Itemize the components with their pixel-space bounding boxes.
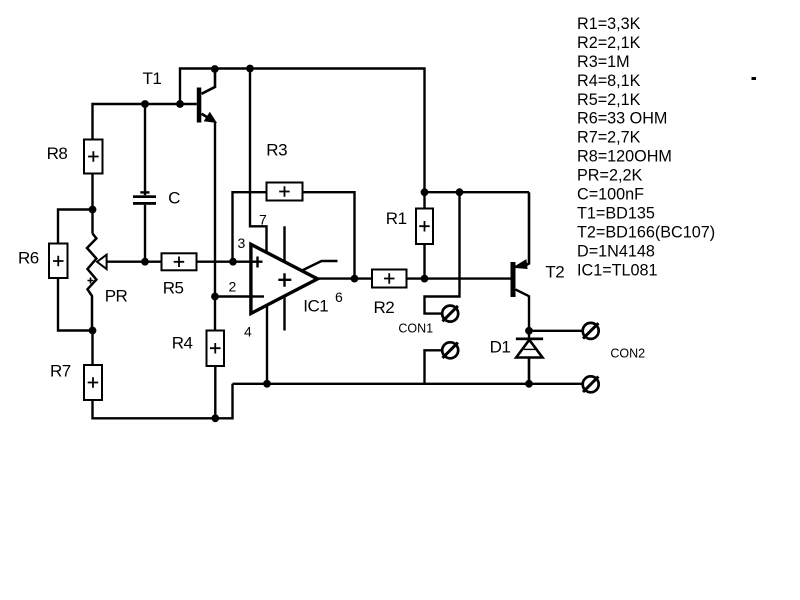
svg-text:CON2: CON2 [610, 347, 645, 361]
svg-text:R7: R7 [50, 362, 71, 381]
svg-text:IC1: IC1 [303, 297, 328, 316]
svg-text:R3: R3 [266, 140, 287, 159]
svg-text:R5: R5 [163, 279, 184, 298]
svg-text:R6=33 OHM: R6=33 OHM [577, 110, 667, 128]
svg-text:D1: D1 [490, 337, 511, 356]
svg-text:R1: R1 [386, 209, 407, 228]
svg-text:R6: R6 [18, 249, 39, 268]
svg-text:R7=2,7K: R7=2,7K [577, 129, 641, 147]
svg-text:IC1=TL081: IC1=TL081 [577, 261, 658, 279]
svg-text:C=100nF: C=100nF [577, 186, 644, 204]
svg-text:R1=3,3K: R1=3,3K [577, 15, 641, 33]
svg-text:D=1N4148: D=1N4148 [577, 242, 655, 260]
svg-text:3: 3 [238, 235, 246, 251]
svg-text:2: 2 [229, 279, 237, 295]
svg-text:R2=2,1K: R2=2,1K [577, 34, 641, 52]
svg-text:R8: R8 [47, 144, 68, 163]
svg-text:R4: R4 [172, 334, 193, 353]
svg-text:PR: PR [105, 287, 128, 306]
svg-text:6: 6 [335, 289, 343, 305]
svg-text:PR=2,2K: PR=2,2K [577, 167, 642, 185]
svg-text:C: C [168, 188, 180, 207]
svg-text:T2: T2 [545, 262, 564, 281]
svg-text:R5=2,1K: R5=2,1K [577, 91, 641, 109]
svg-text:R3=1M: R3=1M [577, 53, 630, 71]
svg-text:T2=BD166(BC107): T2=BD166(BC107) [577, 223, 715, 241]
svg-text:CON1: CON1 [398, 322, 433, 336]
svg-text:T1=BD135: T1=BD135 [577, 205, 655, 223]
svg-text:R8=120OHM: R8=120OHM [577, 148, 672, 166]
svg-text:4: 4 [244, 324, 252, 340]
svg-text:R2: R2 [374, 298, 395, 317]
svg-text:T1: T1 [143, 69, 162, 88]
svg-text:7: 7 [259, 212, 267, 228]
svg-text:R4=8,1K: R4=8,1K [577, 72, 641, 90]
